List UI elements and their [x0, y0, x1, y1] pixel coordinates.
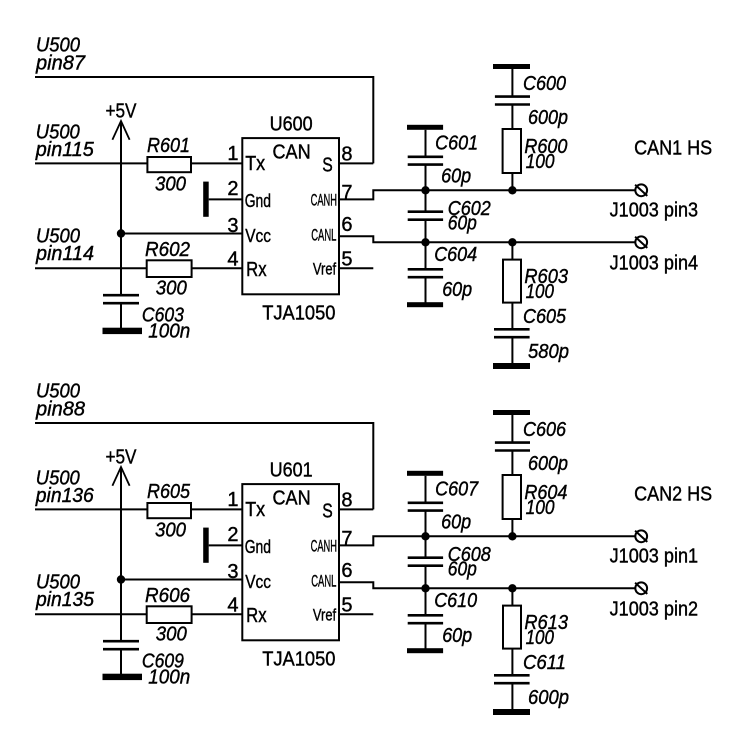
svg-text:pin135: pin135	[35, 589, 95, 611]
wire U600 pin 8 stub	[339, 162, 373, 164]
wire +5V rail	[120, 121, 122, 294]
svg-text:S: S	[322, 501, 333, 523]
svg-text:R605: R605	[147, 481, 191, 503]
svg-text:300: 300	[155, 174, 186, 196]
wire R606 to U601 pin 4 Rx	[192, 613, 243, 615]
wire U600 pin 6 CANL to connector	[339, 236, 635, 242]
svg-text:CANH: CANH	[311, 190, 337, 209]
power +5V	[106, 446, 138, 486]
svg-text:Vcc: Vcc	[245, 226, 271, 246]
svg-text:C606: C606	[523, 419, 567, 441]
ground	[103, 674, 143, 680]
svg-text:6: 6	[341, 560, 352, 582]
svg-text:600p: 600p	[528, 453, 568, 475]
svg-text:S: S	[322, 155, 333, 177]
ground	[493, 363, 530, 369]
connector J1003 pin4	[610, 236, 699, 274]
wire	[425, 511, 427, 558]
svg-text:4: 4	[227, 249, 238, 271]
svg-text:Vref: Vref	[313, 605, 336, 624]
wire	[511, 683, 513, 709]
wire	[511, 519, 513, 536]
junction CANH / C601	[421, 186, 429, 194]
svg-text:CANL: CANL	[311, 572, 336, 591]
node U500 pin135	[35, 571, 95, 610]
svg-text:C604: C604	[434, 244, 477, 266]
power +5V	[106, 100, 138, 140]
ground	[203, 528, 242, 563]
wire	[511, 173, 513, 190]
svg-text:R602: R602	[145, 239, 190, 261]
resistor R604	[503, 475, 568, 519]
wire +5V to U601 pin 3 Vcc	[121, 579, 242, 581]
svg-text:300: 300	[155, 520, 186, 542]
svg-text:100n: 100n	[148, 320, 190, 342]
svg-text:100n: 100n	[148, 666, 190, 688]
svg-text:60p: 60p	[448, 213, 477, 235]
wire	[425, 220, 427, 270]
node U500 pin87	[35, 35, 86, 75]
svg-text:7: 7	[341, 528, 352, 550]
junction CANL / R613	[508, 584, 516, 592]
capacitor C600	[495, 73, 568, 129]
svg-text:300: 300	[156, 624, 187, 646]
svg-text:pin136: pin136	[35, 485, 95, 507]
node U500 pin136	[35, 468, 95, 508]
wire R601 to U600 pin 1 Tx	[191, 162, 242, 164]
svg-text:8: 8	[341, 143, 352, 165]
node U500 pin88	[35, 381, 85, 421]
svg-text:2: 2	[227, 178, 238, 200]
ground	[407, 302, 443, 307]
wire	[425, 566, 427, 616]
svg-text:100: 100	[526, 281, 554, 303]
svg-text:pin114: pin114	[35, 243, 94, 265]
ground	[493, 709, 530, 715]
svg-text:8: 8	[341, 489, 352, 511]
ground	[407, 471, 443, 476]
svg-text:CANL: CANL	[311, 226, 336, 245]
wire	[511, 337, 513, 363]
svg-text:CAN2 HS: CAN2 HS	[634, 483, 712, 505]
svg-text:6: 6	[341, 214, 352, 236]
svg-text:C611: C611	[523, 652, 566, 674]
junction CANH / R604	[508, 532, 516, 540]
svg-text:pin87: pin87	[35, 53, 86, 75]
junction CANL / R603	[508, 238, 516, 246]
svg-text:5: 5	[341, 249, 352, 271]
capacitor C606	[495, 419, 568, 475]
wire	[511, 242, 513, 259]
ground	[493, 64, 530, 69]
svg-text:3: 3	[227, 561, 238, 583]
svg-text:3: 3	[227, 215, 238, 237]
connector J1003 pin2	[610, 582, 699, 620]
wire R602 to U600 pin 4 Rx	[192, 267, 243, 269]
svg-text:100: 100	[526, 151, 555, 173]
svg-text:J1003 pin1: J1003 pin1	[610, 545, 699, 567]
resistor R603	[503, 260, 568, 303]
svg-text:2: 2	[227, 524, 238, 546]
wire	[511, 415, 513, 442]
wire	[511, 69, 513, 96]
svg-text:J1003 pin4: J1003 pin4	[610, 253, 699, 275]
node U500 pin114	[35, 225, 94, 264]
svg-text:1: 1	[227, 489, 238, 511]
svg-text:5: 5	[341, 595, 352, 617]
svg-text:60p: 60p	[442, 279, 472, 301]
svg-text:C610: C610	[434, 590, 477, 612]
wire	[425, 277, 427, 303]
wire U600 pin 7 CANH to connector	[339, 190, 635, 199]
ground	[407, 648, 443, 653]
svg-text:C607: C607	[435, 479, 479, 501]
svg-text:300: 300	[156, 278, 187, 300]
svg-text:60p: 60p	[441, 165, 471, 187]
svg-text:J1003 pin3: J1003 pin3	[610, 199, 699, 221]
wire	[425, 165, 427, 212]
svg-text:60p: 60p	[442, 625, 472, 647]
capacitor C605	[494, 306, 569, 363]
svg-text:Tx: Tx	[245, 153, 265, 175]
svg-text:7: 7	[341, 182, 352, 204]
wire pin135 to R606	[35, 613, 147, 615]
resistor R600	[503, 129, 568, 173]
svg-text:580p: 580p	[528, 341, 569, 363]
ground	[407, 125, 443, 130]
node U500 pin115	[35, 122, 95, 162]
wire +5V rail	[120, 467, 122, 640]
IC U601 TJA1050 CAN transceiver	[242, 460, 339, 671]
svg-text:TJA1050: TJA1050	[262, 649, 335, 671]
wire	[511, 451, 513, 476]
ground	[103, 328, 143, 334]
svg-text:R606: R606	[145, 585, 191, 607]
capacitor C610	[408, 590, 478, 647]
svg-text:C601: C601	[435, 133, 478, 155]
wire R605 to U601 pin 1 Tx	[191, 508, 242, 510]
svg-text:+5V: +5V	[106, 100, 138, 122]
wire U601 pin 6 CANL to connector	[339, 582, 635, 588]
svg-text:CANH: CANH	[311, 536, 337, 555]
svg-text:Vcc: Vcc	[245, 572, 271, 592]
wire	[511, 649, 513, 675]
svg-text:CAN1 HS: CAN1 HS	[634, 137, 712, 159]
svg-text:600p: 600p	[528, 687, 569, 709]
svg-text:600p: 600p	[528, 107, 568, 129]
wire pin87 to U600 pin 8 S	[35, 77, 373, 163]
svg-text:Tx: Tx	[245, 499, 265, 521]
wire pin88 to U601 pin 8 S	[35, 423, 373, 509]
capacitor C609	[103, 641, 190, 688]
junction CANH / C607	[421, 532, 429, 540]
svg-text:C605: C605	[523, 306, 567, 328]
wire pin115 to R601	[35, 162, 147, 164]
ground	[203, 182, 242, 217]
capacitor C607	[408, 479, 479, 534]
resistor R613	[503, 606, 568, 649]
wire U600 pin 5 Vref stub	[339, 267, 373, 269]
IC U600 TJA1050 CAN transceiver	[242, 114, 339, 325]
svg-text:4: 4	[227, 595, 238, 617]
wire U601 pin 5 Vref stub	[339, 613, 373, 615]
resistor R602	[145, 239, 192, 300]
svg-text:TJA1050: TJA1050	[262, 303, 335, 325]
svg-text:60p: 60p	[441, 511, 471, 533]
wire	[425, 623, 427, 649]
svg-text:C600: C600	[523, 73, 566, 95]
svg-text:CAN: CAN	[273, 141, 311, 163]
junction CANL / C610	[421, 584, 429, 592]
resistor R606	[145, 585, 192, 646]
svg-text:U600: U600	[270, 114, 313, 136]
svg-text:J1003 pin2: J1003 pin2	[610, 599, 699, 621]
svg-text:Vref: Vref	[313, 259, 336, 278]
junction +5V / Vcc	[117, 229, 125, 237]
svg-text:pin88: pin88	[35, 399, 85, 421]
capacitor C601	[408, 133, 478, 188]
connector J1003 pin3	[610, 184, 699, 221]
capacitor C611	[494, 652, 569, 709]
svg-text:Gnd: Gnd	[245, 191, 271, 211]
wire	[511, 588, 513, 605]
svg-text:R601: R601	[147, 135, 190, 157]
svg-text:Gnd: Gnd	[245, 537, 271, 557]
wire	[511, 303, 513, 329]
capacitor C608	[408, 544, 491, 580]
resistor R601	[147, 135, 191, 196]
wire pin114 to R602	[35, 267, 147, 269]
svg-text:+5V: +5V	[106, 446, 138, 468]
resistor R605	[147, 481, 191, 542]
connector J1003 pin1	[610, 530, 699, 567]
wire	[425, 130, 427, 156]
capacitor C604	[408, 244, 478, 301]
capacitor C603	[103, 295, 190, 342]
svg-text:CAN: CAN	[273, 487, 311, 509]
svg-text:100: 100	[526, 627, 554, 649]
junction +5V / Vcc	[117, 575, 125, 583]
wire U601 pin 7 CANH to connector	[339, 536, 635, 545]
ground	[493, 410, 530, 415]
wire U601 pin 8 stub	[339, 508, 373, 510]
junction CANH / R600	[508, 186, 516, 194]
capacitor C602	[408, 198, 491, 234]
svg-text:U601: U601	[270, 460, 313, 482]
junction CANL / C604	[421, 238, 429, 246]
svg-text:1: 1	[227, 143, 238, 165]
wire	[425, 476, 427, 502]
svg-text:60p: 60p	[448, 559, 477, 581]
svg-text:100: 100	[526, 497, 555, 519]
svg-text:Rx: Rx	[246, 605, 267, 627]
wire +5V to U600 pin 3 Vcc	[121, 233, 242, 235]
svg-text:Rx: Rx	[246, 259, 267, 281]
svg-text:pin115: pin115	[35, 139, 95, 161]
wire	[511, 105, 513, 130]
wire pin136 to R605	[35, 508, 147, 510]
